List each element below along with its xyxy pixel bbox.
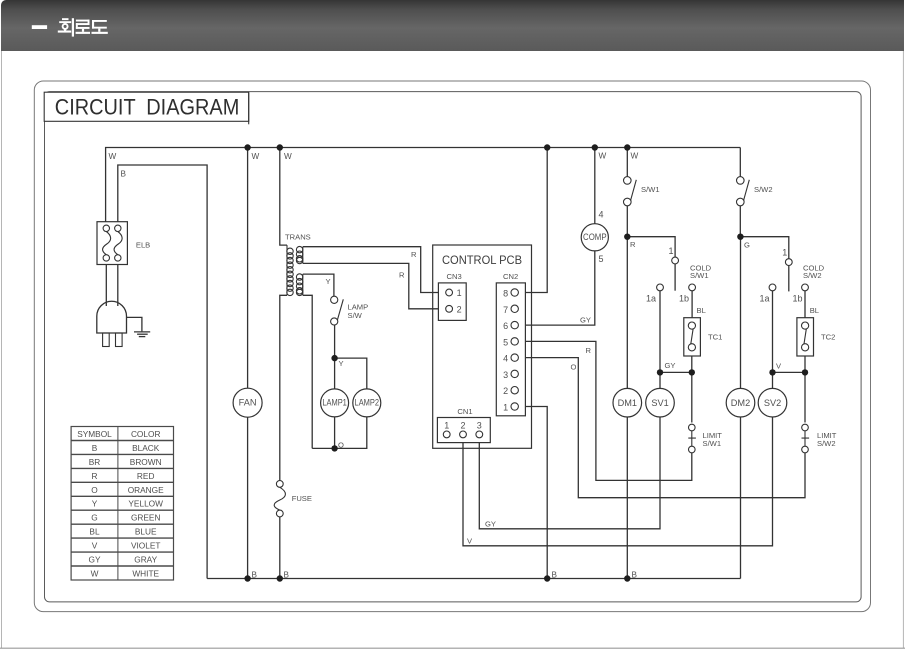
wire Y secondary lead to LAMP S/W (303, 274, 334, 297)
svg-text:CN1: CN1 (457, 407, 472, 416)
wire TRANS primary top (280, 148, 287, 246)
wire TRANS primary bottom to FUSE (280, 295, 287, 480)
svg-text:S/W2: S/W2 (817, 439, 836, 448)
svg-text:2: 2 (503, 386, 508, 396)
wire TC2 to node V rail (773, 350, 806, 372)
svg-text:B: B (552, 571, 558, 580)
wire node Y to LAMP1 (334, 358, 336, 389)
junction node Y lamps (331, 355, 337, 361)
wire O CN2 pin4 to LIMIT S/W2 (518, 358, 805, 498)
junction node O lamps (331, 445, 337, 451)
lamp LAMP1 (321, 389, 349, 417)
connector CN3 (438, 272, 466, 321)
svg-text:BR: BR (89, 457, 101, 467)
svg-text:B: B (284, 571, 290, 580)
transformer TRANS primary coil (287, 245, 293, 295)
svg-text:G: G (744, 241, 750, 250)
cold control switch COLD S/W2 (769, 259, 808, 291)
cold control switch COLD S/W1 (657, 257, 696, 291)
svg-text:3: 3 (477, 421, 482, 431)
svg-text:LAMP2: LAMP2 (355, 397, 380, 407)
svg-text:1: 1 (503, 403, 508, 413)
wire R CN2 pin5 to LIMIT S/W1 (518, 341, 692, 480)
outer rounded frame (34, 81, 870, 612)
wire GY CN1 pin3 to SV1 (479, 417, 660, 529)
wire ELB to plug left (105, 261, 107, 306)
svg-text:R: R (630, 240, 636, 249)
svg-text:W: W (284, 152, 292, 161)
svg-text:W: W (91, 569, 99, 579)
svg-text:LAMP1: LAMP1 (322, 397, 347, 407)
svg-text:V: V (92, 541, 98, 551)
solenoid valve SV2 (758, 388, 787, 417)
wire TC1 to node GY rail (660, 350, 692, 372)
svg-text:B: B (92, 443, 98, 453)
svg-text:SV2: SV2 (764, 398, 781, 408)
lamp LAMP2 (353, 389, 381, 417)
svg-text:R: R (92, 471, 98, 481)
svg-text:S/W1: S/W1 (690, 271, 709, 280)
svg-text:CN2: CN2 (503, 272, 518, 281)
svg-text:V: V (467, 537, 473, 546)
svg-text:GY: GY (485, 519, 496, 528)
svg-text:DM1: DM1 (618, 398, 637, 408)
svg-text:S/W2: S/W2 (803, 271, 822, 280)
wire DM2 to bottom bus (740, 417, 742, 579)
svg-text:BL: BL (89, 527, 100, 537)
fuse FUSE (274, 481, 285, 517)
svg-text:4: 4 (599, 210, 604, 220)
page right border (902, 51, 904, 648)
symbol color table (71, 427, 173, 581)
ELB breaker box (97, 222, 127, 265)
wire LAMP1 to node O (334, 417, 336, 449)
transformer secondary coil upper (296, 246, 302, 263)
plug prong right (116, 333, 123, 347)
header dash icon (32, 25, 47, 29)
fan motor FAN (233, 388, 262, 417)
svg-text:R: R (399, 271, 405, 280)
junction node R S/W1 (624, 234, 630, 240)
door switch S/W1 (624, 177, 637, 206)
svg-text:RED: RED (137, 471, 155, 481)
svg-text:BLUE: BLUE (135, 527, 157, 537)
junction dots bottom bus (244, 575, 630, 581)
wire COMP to W bus (594, 148, 596, 224)
wire LAMP2 to lamp rail (312, 417, 367, 449)
power plug (97, 301, 127, 333)
svg-text:1a: 1a (760, 294, 770, 304)
wire CN2 pin8 to W bus (518, 148, 547, 293)
svg-text:W: W (252, 152, 260, 161)
svg-text:W: W (599, 152, 607, 161)
svg-text:2: 2 (460, 421, 465, 431)
wire node Y to LAMP2 (335, 358, 367, 389)
svg-text:W: W (631, 152, 639, 161)
compressor COMP (581, 224, 608, 251)
wire O secondary lead to lamp rail (303, 295, 312, 448)
svg-text:Y: Y (339, 359, 344, 368)
page left border (1, 51, 3, 648)
svg-text:COLOR: COLOR (131, 429, 161, 439)
svg-text:Y: Y (92, 499, 98, 509)
svg-text:CONTROL PCB: CONTROL PCB (442, 253, 522, 267)
wire node GY to LIMIT S/W1 (691, 372, 693, 422)
title box (44, 92, 249, 121)
svg-text:O: O (571, 363, 577, 372)
svg-text:FUSE: FUSE (292, 494, 312, 503)
transformer secondary coil lower (296, 274, 302, 296)
svg-text:S/W1: S/W1 (641, 185, 660, 194)
svg-text:W: W (109, 152, 117, 161)
svg-text:1: 1 (457, 288, 462, 298)
junction dots top bus (244, 144, 630, 150)
wire ELB to plug right (117, 261, 119, 306)
wire COLD S/W1 1b to TC1 (691, 291, 693, 318)
svg-text:WHITE: WHITE (132, 569, 159, 579)
svg-text:4: 4 (503, 354, 508, 364)
wire S/W1 from bus (626, 148, 628, 178)
svg-text:S/W2: S/W2 (754, 185, 773, 194)
wire bottom B bus (207, 578, 740, 580)
wire V CN1 pin2 to SV2 (463, 417, 773, 546)
thermostat TC1 (684, 318, 701, 356)
svg-text:TRANS: TRANS (285, 233, 311, 242)
svg-text:R: R (411, 250, 417, 259)
svg-text:3: 3 (503, 370, 508, 380)
header bar (1, 0, 904, 51)
wire plug earth lead (127, 317, 142, 331)
wire node GY to SV1 (659, 372, 661, 389)
svg-text:DM2: DM2 (731, 398, 750, 408)
wire S/W2 to node G (739, 205, 741, 237)
svg-text:1: 1 (669, 246, 674, 256)
svg-text:S/W1: S/W1 (703, 439, 722, 448)
svg-text:S/W: S/W (348, 311, 363, 320)
wire FAN branch (247, 148, 249, 390)
junction node GY rail dots (657, 369, 663, 375)
svg-text:VIOLET: VIOLET (131, 541, 161, 551)
svg-text:FAN: FAN (239, 398, 257, 408)
svg-text:1b: 1b (679, 294, 689, 304)
wire B from ELB up and right down to bottom bus (118, 165, 207, 579)
svg-text:O: O (91, 485, 98, 495)
wire COLD S/W2 blade stub (788, 265, 790, 291)
page bottom rule (0, 647, 905, 649)
header glyph DO (92, 20, 108, 34)
wire COLD S/W1 blade stub (674, 264, 676, 291)
svg-text:B: B (121, 170, 127, 179)
svg-text:5: 5 (503, 337, 508, 347)
thermostat TC2 (797, 318, 814, 356)
control board CONTROL PCB (433, 245, 532, 448)
svg-text:CN3: CN3 (447, 272, 462, 281)
svg-text:8: 8 (503, 289, 508, 299)
svg-text:B: B (632, 571, 638, 580)
wire W top bus (106, 148, 741, 226)
wire S/W1 to node R (626, 205, 628, 237)
wire R secondary lead 2 to CN3 pin2 (303, 263, 446, 308)
solenoid valve SV1 (646, 388, 675, 417)
svg-text:SYMBOL: SYMBOL (77, 429, 112, 439)
wire node R to COLD S/W1 common (627, 237, 675, 258)
connector CN2 (496, 272, 525, 416)
junction node V rail dots (769, 369, 775, 375)
svg-text:6: 6 (503, 321, 508, 331)
junction node G S/W2 (737, 234, 743, 240)
damper motor DM1 (613, 388, 642, 417)
wire COLD S/W1 1a to node GY (659, 291, 661, 373)
svg-text:B: B (252, 571, 258, 580)
svg-text:1: 1 (782, 248, 787, 258)
svg-text:G: G (91, 513, 97, 523)
wire COLD S/W2 1a to node V (772, 291, 774, 373)
wire node V to LIMIT S/W2 (804, 372, 806, 422)
limit switch LIMIT S/W1 (688, 424, 696, 453)
svg-text:O: O (338, 441, 344, 450)
svg-text:BLACK: BLACK (132, 443, 160, 453)
svg-text:GRAY: GRAY (134, 555, 157, 565)
wire node G to COLD S/W2 common (741, 237, 789, 259)
svg-text:ELB: ELB (136, 241, 150, 250)
svg-text:1a: 1a (646, 294, 656, 304)
wire node V to SV2 (772, 372, 774, 389)
plug prong left (103, 333, 110, 347)
svg-text:GREEN: GREEN (131, 513, 161, 523)
svg-text:BL: BL (810, 306, 819, 315)
svg-text:TC2: TC2 (821, 333, 835, 342)
wire S/W2 from bus (739, 148, 741, 178)
inner rounded frame (45, 92, 862, 602)
svg-text:GY: GY (665, 361, 676, 370)
damper motor DM2 (726, 388, 755, 417)
wire node G to DM2 (740, 237, 742, 389)
svg-text:1: 1 (444, 421, 449, 431)
wire CN2 pin1 to bottom bus (518, 407, 547, 579)
svg-text:CIRCUIT DIAGRAM: CIRCUIT DIAGRAM (55, 95, 240, 120)
svg-text:YELLOW: YELLOW (128, 499, 163, 509)
wire LAMP S/W to Y node (334, 325, 336, 358)
svg-text:GY: GY (89, 555, 101, 565)
wire node R to DM1 (626, 237, 628, 389)
svg-text:5: 5 (599, 254, 604, 264)
svg-text:Y: Y (326, 277, 331, 286)
svg-text:ORANGE: ORANGE (128, 485, 164, 495)
header glyph RO (76, 20, 90, 34)
svg-text:GY: GY (580, 315, 591, 324)
lamp switch LAMP S/W (331, 296, 344, 325)
svg-text:BL: BL (697, 306, 706, 315)
svg-text:R: R (586, 346, 592, 355)
svg-text:V: V (776, 362, 782, 371)
header glyph HOE (58, 18, 74, 36)
wire FUSE to bottom bus (279, 517, 281, 579)
wire DM1 to bottom bus (626, 417, 628, 579)
limit switch LIMIT S/W2 (802, 424, 810, 453)
ground symbol (134, 332, 150, 337)
wire FAN to bottom bus (247, 417, 249, 579)
door switch S/W2 (737, 177, 750, 206)
svg-text:1b: 1b (793, 294, 803, 304)
wire GY CN2 pin6 to COMP (518, 251, 595, 325)
wire R secondary lead 1 to CN3 pin1 (303, 247, 446, 293)
svg-text:BROWN: BROWN (130, 457, 162, 467)
svg-text:COMP: COMP (583, 232, 607, 242)
svg-text:SV1: SV1 (651, 398, 668, 408)
connector CN1 (437, 407, 490, 443)
svg-text:TC1: TC1 (708, 333, 722, 342)
svg-text:7: 7 (503, 305, 508, 315)
wire COLD S/W2 1b to TC2 (804, 291, 806, 318)
svg-text:2: 2 (457, 304, 462, 314)
